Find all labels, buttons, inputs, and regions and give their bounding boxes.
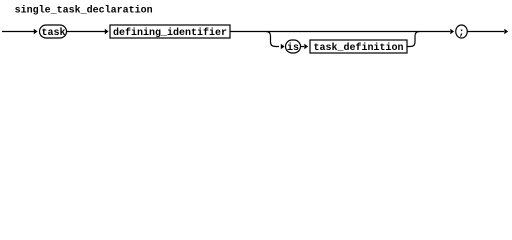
wire: main rail bypass over optional branch (230, 31, 450, 33)
svg-text:is: is (287, 42, 299, 54)
nonterminal box: defining_identifier (110, 25, 230, 39)
wire: entry segment on main rail (2, 31, 34, 33)
nonterminal box: task_definition (310, 40, 407, 54)
arrow: diagram end (504, 29, 508, 35)
terminal oval: semicolon (456, 25, 468, 39)
wire: main rail between task and defining_identifier (67, 31, 106, 33)
wire: branch split curve down (266, 32, 279, 47)
wire: branch rejoin curve up (407, 32, 420, 47)
terminal oval: task (40, 25, 67, 39)
arrow before terminal task (34, 29, 38, 35)
svg-text:defining_identifier: defining_identifier (113, 27, 227, 39)
svg-text:;: ; (459, 28, 465, 39)
wire: branch rail between is and task_definition (301, 46, 305, 48)
arrow before defining_identifier (105, 29, 109, 35)
arrow before terminal is (281, 44, 285, 50)
svg-text:single_task_declaration: single_task_declaration (15, 4, 153, 16)
terminal oval: is (286, 40, 301, 54)
svg-text:task: task (42, 27, 66, 39)
arrow before terminal semicolon (450, 29, 454, 35)
svg-text:task_definition: task_definition (314, 42, 404, 54)
wire: exit segment on main rail (468, 31, 505, 33)
arrow before task_definition (304, 44, 308, 50)
